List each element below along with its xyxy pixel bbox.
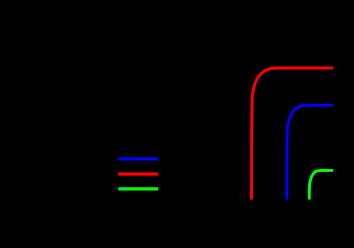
blue saturation curve <box>287 105 333 199</box>
green saturation curve <box>309 170 333 199</box>
red saturation curve <box>252 68 334 200</box>
legend key line green (series 3) <box>118 187 158 190</box>
legend key line blue (series 1) <box>118 157 158 160</box>
legend key line red (series 2) <box>118 172 158 175</box>
